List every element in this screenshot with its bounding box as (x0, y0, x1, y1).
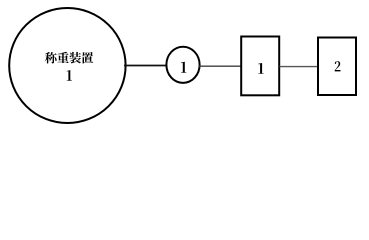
weighing device: large circle (9, 8, 125, 123)
label text 置 (82, 52, 94, 64)
label text 装 (69, 52, 81, 64)
node: small circle 1 (166, 47, 199, 83)
label 1 (small circle) (181, 62, 187, 73)
label 2 (block 2) (335, 61, 341, 71)
wire: large circle to small circle (124, 65, 166, 67)
label 1 (block 1) (258, 63, 263, 74)
wire: block 1 to block 2 (280, 66, 319, 68)
label text 称 (45, 52, 57, 64)
wire: small circle to block 1 (199, 65, 241, 67)
block 2: rectangle (318, 38, 356, 96)
label text 重 (57, 52, 69, 63)
block 1: rectangle (241, 37, 279, 96)
label 1 (weighing device number) (67, 70, 72, 81)
